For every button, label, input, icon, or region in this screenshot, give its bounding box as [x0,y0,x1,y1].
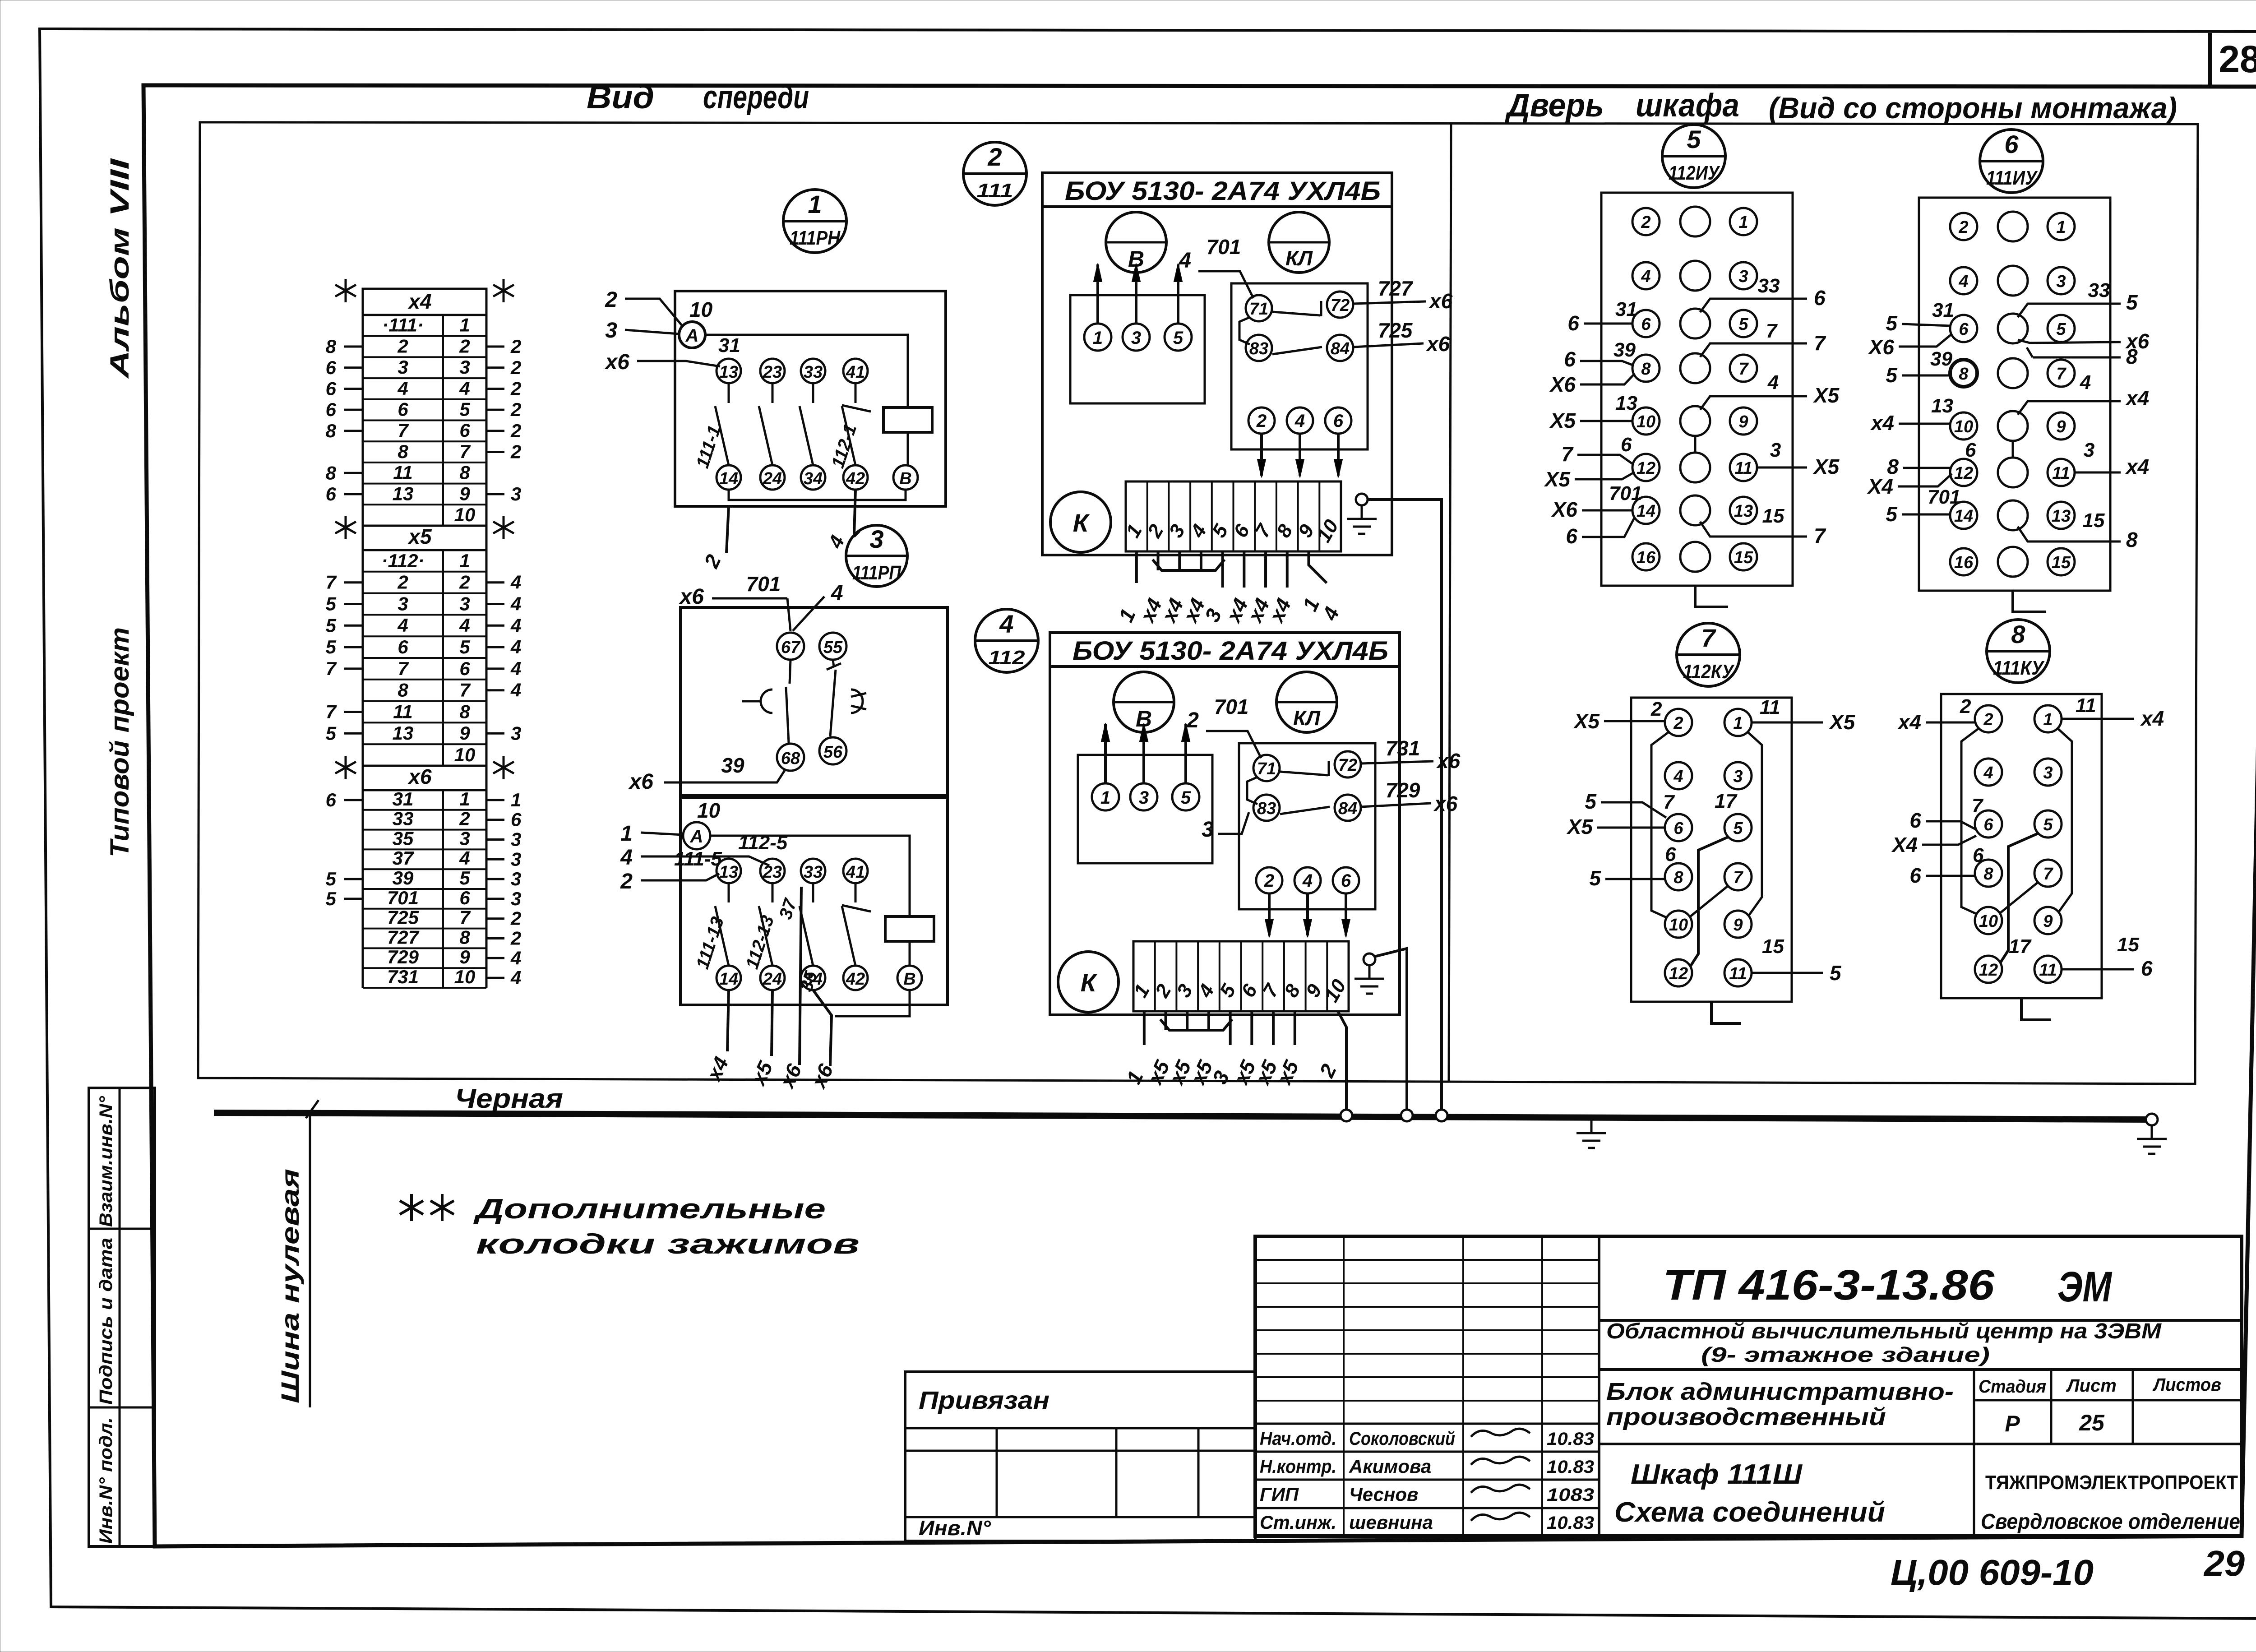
svg-text:8: 8 [1641,360,1651,379]
svg-text:7: 7 [2056,365,2066,384]
svg-text:13: 13 [1734,502,1753,521]
svg-text:Х4: Х4 [1891,833,1918,856]
svg-text:12: 12 [1637,459,1655,478]
svg-text:71: 71 [1249,300,1268,319]
svg-text:6: 6 [1909,809,1921,832]
svg-text:КЛ: КЛ [1293,706,1321,730]
svg-text:31: 31 [718,334,740,356]
svg-text:6: 6 [1341,871,1351,891]
svg-text:33: 33 [1758,275,1780,297]
svg-text:3: 3 [398,356,408,378]
svg-text:5: 5 [1589,866,1601,890]
svg-text:(9- этажное здание): (9- этажное здание) [1701,1343,1990,1366]
svg-text:6: 6 [326,378,337,399]
svg-text:х6: х6 [1425,332,1450,356]
svg-text:В: В [903,970,915,989]
svg-text:1: 1 [2043,710,2053,729]
svg-text:Альбом VIII: Альбом VIII [105,157,134,379]
svg-text:39: 39 [393,867,414,888]
svg-text:15: 15 [2083,509,2105,532]
svg-text:6: 6 [1983,815,1993,834]
svg-text:5: 5 [459,867,470,888]
svg-text:7: 7 [1972,795,1984,817]
svg-text:33: 33 [2088,279,2110,301]
svg-text:111КУ: 111КУ [1993,657,2045,679]
svg-text:2: 2 [1960,695,1971,717]
svg-text:4: 4 [397,378,408,399]
svg-text:Х6: Х6 [1868,335,1895,359]
svg-text:ЭМ: ЭМ [2057,1263,2113,1311]
svg-text:16: 16 [1637,548,1656,567]
svg-text:4: 4 [510,947,521,968]
svg-text:2: 2 [459,808,470,829]
svg-text:7: 7 [326,658,337,679]
svg-text:9: 9 [459,946,470,967]
svg-text:БОУ 5130- 2А74 УХЛ4Б: БОУ 5130- 2А74 УХЛ4Б [1065,176,1381,206]
svg-text:3: 3 [605,319,617,342]
svg-text:Шкаф 111Ш: Шкаф 111Ш [1631,1459,1803,1490]
svg-text:1: 1 [459,550,470,571]
svg-text:39: 39 [721,754,744,777]
svg-text:3: 3 [511,868,521,889]
svg-text:727: 727 [387,926,420,948]
svg-text:701: 701 [1928,486,1960,508]
svg-text:29: 29 [2203,1543,2245,1583]
svg-text:4: 4 [1673,767,1683,786]
svg-text:4: 4 [510,658,521,679]
svg-text:8: 8 [326,420,337,441]
svg-text:6: 6 [1814,286,1826,310]
svg-text:6: 6 [2004,130,2019,158]
svg-text:8: 8 [326,336,337,357]
svg-text:2: 2 [987,143,1002,171]
svg-text:Дополнительные: Дополнительные [473,1194,826,1225]
svg-text:х4: х4 [407,290,431,313]
svg-text:1: 1 [1100,788,1110,808]
svg-text:67: 67 [781,638,801,657]
svg-text:13: 13 [1615,392,1637,414]
svg-text:4: 4 [459,615,470,636]
svg-text:31: 31 [393,788,414,810]
svg-text:Акимова: Акимова [1349,1456,1431,1477]
svg-text:х6: х6 [628,770,654,794]
svg-text:7: 7 [398,420,409,441]
svg-text:31: 31 [1615,298,1637,320]
svg-text:23: 23 [763,363,782,382]
svg-text:Шина нулевая: Шина нулевая [276,1169,304,1403]
svg-text:А: А [690,827,703,847]
svg-text:111-5: 111-5 [674,848,722,870]
svg-text:71: 71 [1257,759,1276,778]
svg-text:А: А [685,326,699,346]
svg-text:5: 5 [1886,363,1898,387]
svg-text:13: 13 [719,363,738,382]
svg-text:3: 3 [459,593,470,614]
svg-text:Х5: Х5 [1812,455,1840,478]
svg-text:2: 2 [459,572,470,593]
svg-text:Х5: Х5 [1828,710,1856,734]
svg-text:8: 8 [459,926,470,948]
svg-text:Х4: Х4 [1867,475,1893,498]
svg-text:13: 13 [719,863,738,882]
svg-text:8: 8 [459,462,470,483]
svg-text:Привязан: Привязан [919,1386,1049,1414]
svg-text:14: 14 [719,970,738,989]
svg-text:1: 1 [1738,213,1748,232]
svg-text:х6: х6 [1436,749,1461,773]
svg-text:5: 5 [459,636,470,657]
svg-text:10: 10 [1669,916,1688,935]
svg-text:8: 8 [398,441,408,462]
svg-text:1: 1 [620,822,633,846]
svg-text:56: 56 [823,743,843,762]
svg-text:5: 5 [2056,320,2066,339]
svg-text:Дверь: Дверь [1504,88,1604,124]
svg-text:5: 5 [326,888,337,909]
svg-text:колодки зажимов: колодки зажимов [476,1229,860,1260]
svg-text:4: 4 [2080,371,2091,393]
svg-text:8: 8 [2126,528,2138,551]
svg-text:шевнина: шевнина [1349,1512,1433,1533]
svg-text:14: 14 [1954,507,1973,526]
svg-text:6: 6 [1333,411,1344,431]
svg-text:701: 701 [1214,695,1249,718]
svg-text:4: 4 [1767,371,1779,393]
svg-text:Типовой проект: Типовой проект [105,627,134,857]
svg-text:7: 7 [1733,868,1743,887]
svg-text:35: 35 [393,828,414,849]
svg-text:1: 1 [1733,714,1743,733]
svg-text:Соколовский: Соколовский [1349,1428,1455,1449]
svg-text:11: 11 [2039,961,2057,980]
svg-text:Нач.отд.: Нач.отд. [1260,1428,1336,1449]
svg-text:·112·: ·112· [382,550,425,571]
svg-text:9: 9 [2056,417,2066,436]
svg-text:Схема соединений: Схема соединений [1614,1497,1885,1528]
svg-text:9: 9 [2043,912,2053,931]
svg-text:15: 15 [1762,505,1784,527]
svg-text:14: 14 [1637,502,1655,521]
svg-text:17: 17 [2009,935,2032,958]
svg-text:83: 83 [1249,339,1268,358]
svg-text:1083: 1083 [1547,1485,1594,1505]
svg-text:3: 3 [2056,272,2066,291]
svg-text:Стадия: Стадия [1979,1377,2046,1397]
svg-text:Свердловское отделение: Свердловское отделение [1981,1510,2240,1534]
svg-text:2: 2 [510,378,521,399]
svg-text:5: 5 [326,636,337,657]
svg-text:15: 15 [1734,548,1753,567]
svg-text:7: 7 [2043,865,2053,884]
svg-text:3: 3 [869,525,883,553]
svg-text:8: 8 [1674,868,1683,887]
svg-text:41: 41 [846,863,865,882]
svg-text:2: 2 [605,288,617,312]
svg-text:2: 2 [1958,218,1968,237]
svg-text:10: 10 [1954,417,1973,436]
svg-text:5: 5 [1886,311,1898,335]
svg-text:6: 6 [511,809,522,830]
svg-text:6: 6 [459,887,470,908]
svg-text:6: 6 [1665,843,1676,865]
svg-text:6: 6 [1567,311,1579,335]
svg-text:5: 5 [1181,788,1191,808]
svg-text:10.83: 10.83 [1547,1457,1594,1477]
svg-text:5: 5 [326,868,337,889]
svg-text:х4: х4 [2125,386,2149,410]
svg-text:Блок административно-: Блок административно- [1606,1378,1954,1405]
svg-text:2: 2 [510,420,521,441]
svg-text:2: 2 [510,336,521,357]
svg-text:10: 10 [1979,912,1998,931]
svg-text:х4: х4 [2125,455,2149,478]
svg-text:3: 3 [511,848,521,870]
svg-text:7: 7 [326,701,337,722]
svg-text:3: 3 [459,828,470,849]
svg-text:11: 11 [393,701,413,722]
svg-text:Ц,00 609-10: Ц,00 609-10 [1891,1552,2094,1592]
svg-text:2: 2 [1641,213,1650,232]
svg-text:34: 34 [804,469,823,488]
svg-text:3: 3 [459,356,470,378]
svg-text:7: 7 [1561,442,1574,466]
svg-text:6: 6 [398,399,408,420]
svg-text:11: 11 [2076,694,2096,717]
svg-text:х4: х4 [1870,411,1894,435]
svg-text:4: 4 [1179,249,1191,273]
svg-text:Чеснов: Чеснов [1349,1484,1418,1505]
svg-text:Инв.N° подл.: Инв.N° подл. [96,1417,116,1544]
svg-text:4: 4 [1983,764,1993,782]
svg-text:х6: х6 [1433,792,1458,815]
svg-text:8: 8 [2011,620,2025,648]
svg-text:шкафа: шкафа [1636,88,1739,124]
svg-text:112: 112 [989,647,1026,669]
svg-text:33: 33 [804,363,823,382]
svg-text:Х5: Х5 [1812,384,1840,407]
svg-text:8: 8 [326,462,337,483]
svg-text:Х5: Х5 [1549,409,1576,432]
svg-text:2: 2 [1264,871,1274,891]
svg-text:8: 8 [1959,365,1969,384]
svg-text:1: 1 [459,788,470,810]
svg-text:725: 725 [1378,319,1413,342]
svg-text:К: К [1081,968,1098,997]
svg-text:9: 9 [1738,412,1748,431]
svg-text:2: 2 [1983,710,1993,729]
svg-text:х6: х6 [679,585,704,609]
svg-text:7: 7 [1814,331,1826,355]
svg-text:23: 23 [763,863,782,882]
svg-text:28: 28 [2219,38,2256,80]
svg-text:3: 3 [2043,764,2053,782]
svg-text:7: 7 [459,680,471,701]
svg-text:7: 7 [459,441,471,462]
svg-text:производственный: производственный [1606,1403,1886,1430]
svg-text:9: 9 [1733,916,1743,935]
svg-text:5: 5 [326,593,337,615]
svg-text:6: 6 [398,636,408,657]
svg-text:1: 1 [808,190,822,218]
svg-text:725: 725 [387,907,419,928]
svg-text:4: 4 [1641,267,1650,286]
svg-text:2: 2 [397,335,408,356]
svg-text:Черная: Черная [455,1083,563,1114]
svg-text:х5: х5 [407,525,432,548]
svg-text:8: 8 [1983,865,1993,884]
svg-text:4: 4 [1958,272,1968,291]
svg-text:х6: х6 [1428,289,1453,313]
svg-text:5: 5 [1738,315,1748,334]
svg-text:12: 12 [1954,464,1973,483]
svg-text:3: 3 [511,483,521,504]
svg-text:39: 39 [1613,339,1636,361]
svg-text:3: 3 [511,722,521,744]
svg-text:42: 42 [846,970,865,989]
svg-text:17: 17 [1715,790,1738,812]
svg-text:72: 72 [1338,756,1357,775]
svg-text:6: 6 [2141,957,2153,980]
svg-text:4: 4 [510,680,521,701]
svg-text:4: 4 [459,847,470,869]
svg-text:5: 5 [1173,328,1183,348]
svg-text:9: 9 [459,722,470,744]
svg-text:14: 14 [719,469,738,488]
svg-text:3: 3 [511,888,521,909]
svg-text:701: 701 [1207,235,1241,259]
svg-text:7: 7 [1766,320,1778,342]
svg-text:10.83: 10.83 [1547,1513,1594,1533]
svg-text:9: 9 [459,483,470,504]
svg-text:5: 5 [2126,291,2138,314]
svg-text:Вид: Вид [587,79,654,116]
svg-text:6: 6 [1909,864,1921,887]
svg-text:2: 2 [1650,698,1662,720]
svg-text:3: 3 [511,829,521,850]
svg-text:Х5: Х5 [1573,709,1600,733]
svg-text:4: 4 [510,572,521,593]
svg-text:10.83: 10.83 [1547,1429,1594,1449]
svg-text:5: 5 [1830,961,1842,985]
svg-text:7: 7 [1663,791,1675,813]
svg-text:31: 31 [1932,299,1954,321]
svg-text:3: 3 [2084,439,2094,461]
svg-text:11: 11 [1729,964,1747,983]
svg-text:5: 5 [1585,790,1597,813]
svg-text:13: 13 [2052,507,2071,526]
svg-text:3: 3 [1738,267,1748,286]
svg-text:Р: Р [2005,1411,2020,1436]
svg-text:72: 72 [1331,296,1350,315]
svg-text:37: 37 [393,847,414,869]
svg-text:5: 5 [1733,819,1743,838]
svg-text:6: 6 [326,789,337,810]
svg-text:Лист: Лист [2066,1376,2117,1396]
svg-text:10: 10 [454,966,476,987]
svg-text:24: 24 [763,469,782,488]
svg-text:7: 7 [1701,624,1716,652]
svg-text:39: 39 [1930,348,1952,370]
svg-text:2: 2 [510,908,521,929]
svg-text:4: 4 [397,615,408,636]
svg-text:15: 15 [1762,935,1784,958]
svg-text:2: 2 [510,399,521,420]
svg-text:16: 16 [1954,553,1974,572]
svg-text:Х6: Х6 [1549,373,1576,396]
svg-text:Х6: Х6 [1551,498,1578,521]
svg-text:5: 5 [459,399,470,420]
svg-text:8: 8 [398,680,408,701]
svg-text:11: 11 [2052,464,2070,483]
svg-text:5: 5 [326,722,337,744]
svg-text:731: 731 [1386,736,1420,760]
svg-text:3: 3 [398,593,408,614]
svg-text:Ст.инж.: Ст.инж. [1260,1512,1336,1533]
svg-text:6: 6 [459,658,470,679]
svg-text:84: 84 [1338,799,1357,818]
svg-text:8: 8 [2126,345,2138,368]
svg-text:6: 6 [1621,434,1632,456]
svg-text:111ИУ: 111ИУ [1986,167,2038,189]
svg-text:6: 6 [1959,320,1969,339]
svg-text:4: 4 [1294,411,1305,431]
svg-text:К: К [1073,509,1090,537]
svg-text:12: 12 [1669,964,1688,983]
svg-text:11: 11 [1760,696,1780,718]
svg-text:5: 5 [326,615,337,636]
svg-text:6: 6 [326,357,337,378]
svg-text:1: 1 [511,789,521,810]
svg-text:8: 8 [459,701,470,722]
svg-text:6: 6 [326,483,337,504]
svg-text:83: 83 [1257,799,1276,818]
svg-text:33: 33 [804,863,823,882]
svg-text:4: 4 [510,593,521,615]
svg-text:БОУ 5130- 2А74 УХЛ4Б: БОУ 5130- 2А74 УХЛ4Б [1073,636,1388,666]
svg-text:6: 6 [1566,524,1577,548]
svg-text:701: 701 [1609,482,1642,504]
svg-text:7: 7 [326,572,337,593]
svg-text:701: 701 [746,572,781,596]
svg-text:33: 33 [393,808,414,829]
svg-text:Взаим.инв.N°: Взаим.инв.N° [96,1096,116,1227]
svg-text:111РН: 111РН [790,227,841,249]
svg-text:5: 5 [1886,502,1898,526]
svg-text:112ИУ: 112ИУ [1669,162,1720,184]
svg-text:15: 15 [2117,934,2139,956]
svg-text:·111·: ·111· [382,315,424,336]
svg-text:4: 4 [620,846,633,870]
svg-text:ТЯЖПРОМЭЛЕКТРОПРОЕКТ: ТЯЖПРОМЭЛЕКТРОПРОЕКТ [1985,1472,2238,1494]
svg-text:731: 731 [387,966,419,987]
svg-text:х6: х6 [407,765,432,788]
svg-text:3: 3 [1733,767,1743,786]
svg-text:42: 42 [846,469,865,488]
svg-text:4: 4 [1302,871,1313,891]
svg-text:4: 4 [510,615,521,636]
svg-text:6: 6 [1965,439,1976,461]
svg-text:7: 7 [1738,360,1749,379]
svg-text:(Вид со стороны монтажа): (Вид со стороны монтажа) [1769,91,2177,125]
svg-text:701: 701 [387,887,419,908]
svg-text:25: 25 [2079,1410,2105,1435]
svg-text:5: 5 [1687,125,1701,153]
svg-text:3: 3 [1131,328,1141,348]
svg-text:2: 2 [1186,708,1199,732]
svg-text:15: 15 [2052,553,2071,572]
svg-text:Областной вычислительный центр: Областной вычислительный центр на 3ЭВМ [1606,1319,2162,1343]
svg-text:41: 41 [846,363,865,382]
